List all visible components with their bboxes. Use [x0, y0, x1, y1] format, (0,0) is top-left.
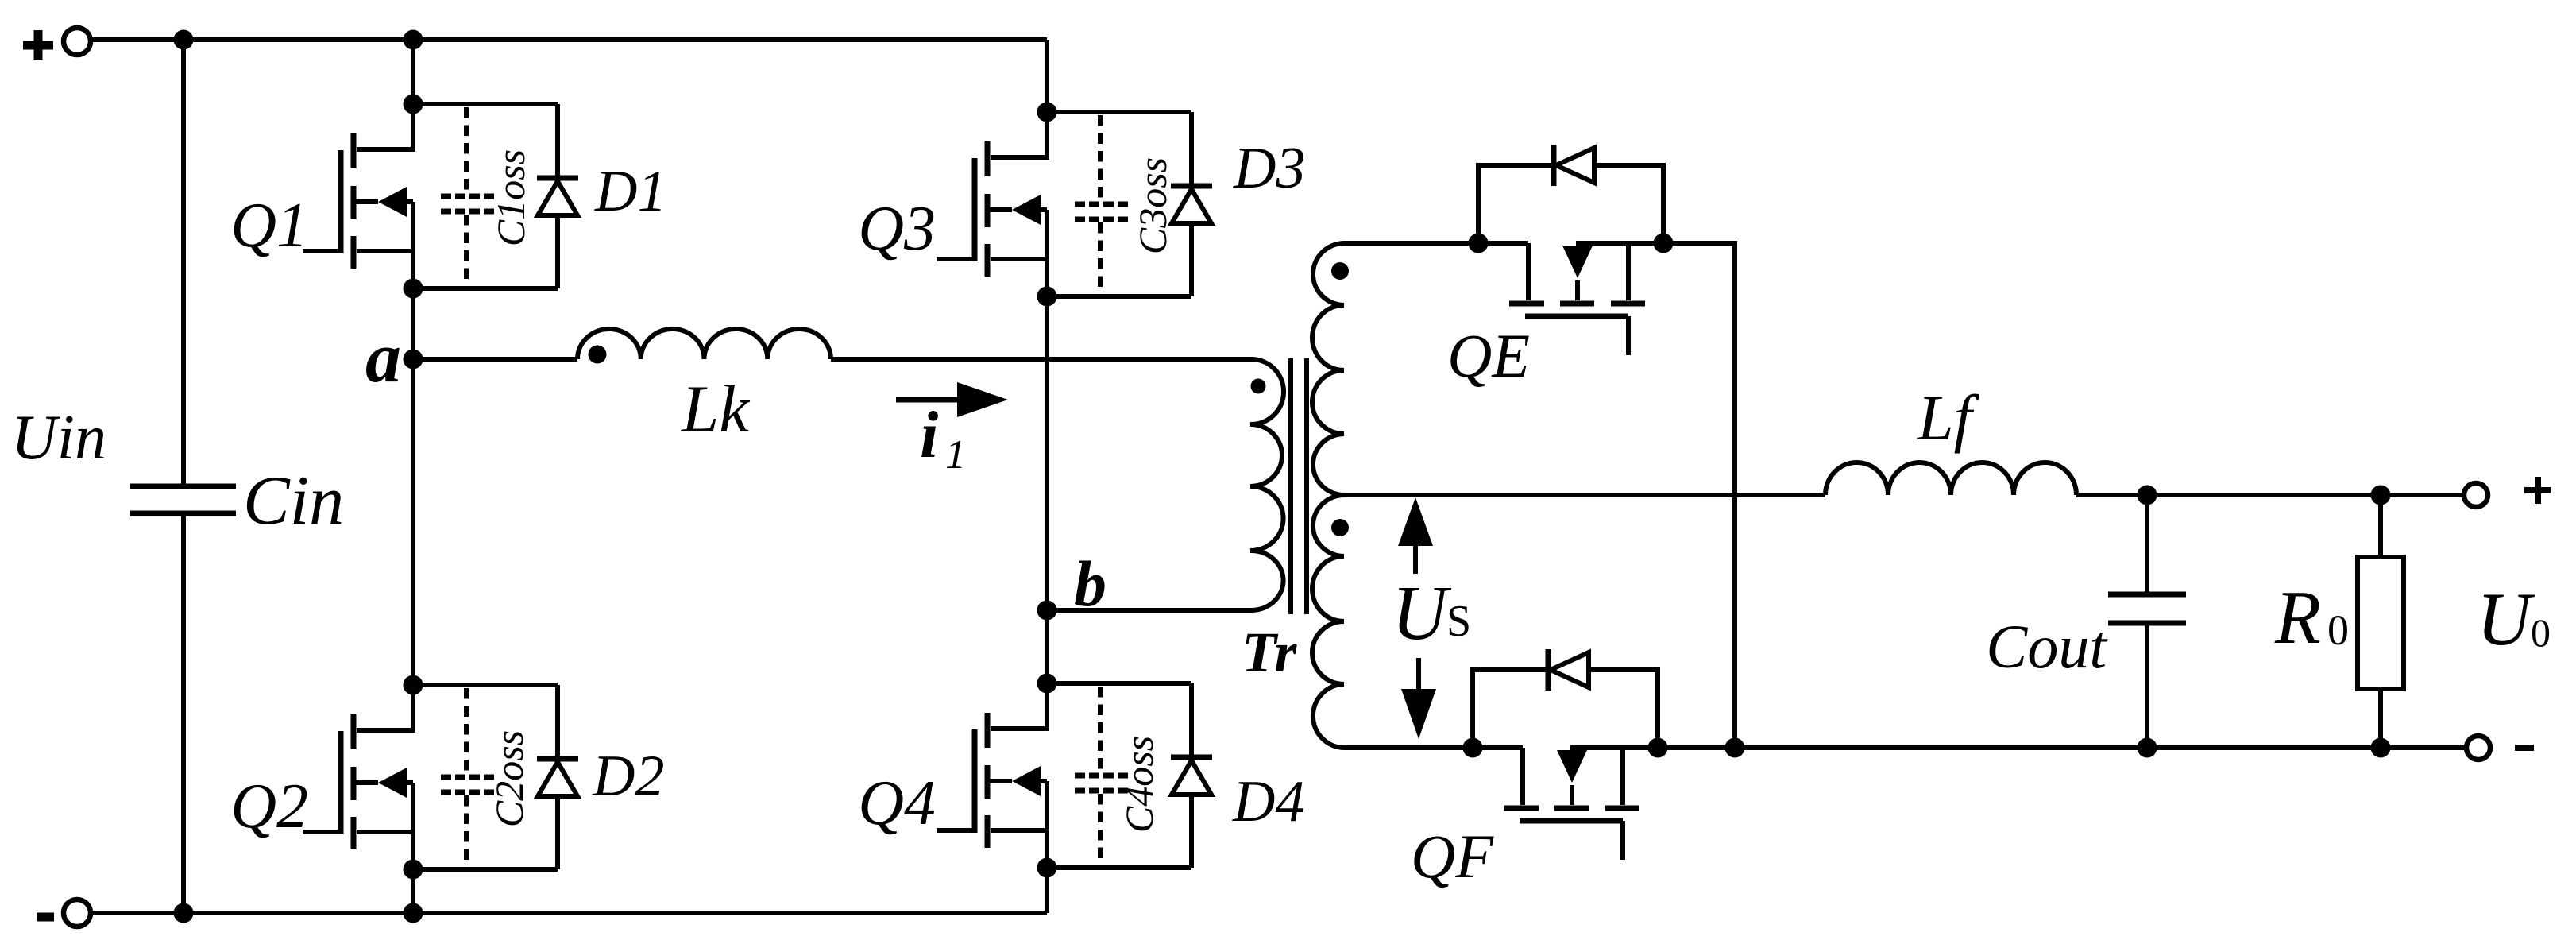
node bottom rail / left leg junction — [404, 903, 423, 923]
wire center tap to Lf — [1344, 493, 1825, 497]
node QF left junction — [1463, 738, 1483, 758]
svg-text:0: 0 — [2531, 610, 2551, 655]
svg-text:Cout: Cout — [1986, 612, 2108, 681]
terminal + output — [2464, 477, 2551, 507]
transistor Q2 — [303, 685, 413, 869]
node Q4 drain junction — [1037, 674, 1057, 694]
terminal - output — [2466, 736, 2534, 760]
wire right leg middle — [1045, 296, 1049, 683]
capacitor Cin — [130, 486, 236, 513]
transistor QE — [1509, 243, 1645, 355]
node Q3 source junction — [1037, 287, 1057, 307]
svg-text:QE: QE — [1447, 321, 1530, 390]
svg-text:Q2: Q2 — [230, 772, 308, 841]
label Us — [1392, 571, 1471, 656]
wire Lf to output plus — [2076, 493, 2464, 497]
node QE right junction — [1654, 234, 1674, 253]
svg-text:0: 0 — [2327, 606, 2349, 654]
node QF right junction — [1648, 738, 1668, 758]
svg-text:U: U — [2477, 577, 2535, 661]
node top rail / left leg junction — [404, 30, 423, 50]
diode D3 — [1171, 112, 1212, 296]
node Q2 source junction — [404, 860, 423, 880]
wire Lk to transformer primary — [831, 357, 1252, 362]
svg-text:Cin: Cin — [243, 462, 344, 540]
transistor Q4 — [937, 683, 1047, 868]
arrow i1 — [896, 382, 1008, 417]
wire left leg middle — [411, 288, 415, 685]
wire secondary bottom rail — [1344, 745, 2464, 750]
svg-text:Q3: Q3 — [858, 194, 936, 264]
svg-text:S: S — [1446, 597, 1471, 646]
wire right leg top — [1045, 40, 1049, 112]
node secondary bottom phase dot — [1331, 519, 1349, 536]
wire secondary top rail — [1344, 243, 1735, 748]
svg-text:C4oss: C4oss — [1117, 736, 1161, 833]
transformer Tr secondary top winding — [1312, 243, 1346, 495]
capacitor C1oss — [413, 104, 558, 288]
node Q4 source junction — [1037, 858, 1057, 878]
label i1 — [920, 398, 966, 478]
transformer Tr core — [1291, 358, 1307, 614]
label U0 — [2477, 577, 2551, 661]
svg-text:a: a — [365, 319, 401, 397]
terminal + input — [23, 28, 91, 60]
resistor R0 — [2358, 495, 2404, 748]
diode D2 — [537, 685, 578, 869]
arrow Us up — [1398, 497, 1433, 574]
terminal - input — [37, 900, 91, 927]
diode D1 — [537, 104, 578, 288]
svg-text:b: b — [1074, 547, 1106, 620]
node Cout bottom junction — [2138, 738, 2157, 758]
node bottom rail / Cin junction — [174, 903, 194, 923]
svg-text:Q4: Q4 — [858, 768, 936, 838]
node secondary rail junction — [1725, 738, 1745, 758]
capacitor Cout — [2108, 495, 2186, 748]
arrow Us down — [1401, 658, 1436, 739]
capacitor C4oss — [1047, 683, 1191, 868]
svg-text:i: i — [920, 398, 938, 472]
MOSFET bridge placeholder — [303, 95, 1305, 880]
svg-text:QF: QF — [1411, 822, 1494, 891]
transformer Tr secondary bottom winding — [1312, 495, 1346, 748]
svg-text:D2: D2 — [592, 744, 664, 809]
svg-text:1: 1 — [945, 432, 966, 478]
capacitor C2oss — [413, 685, 558, 869]
diode D4 — [1171, 683, 1212, 868]
diode QE antiparallel — [1478, 145, 1663, 243]
transistor QF — [1504, 748, 1639, 860]
node b — [1037, 601, 1057, 621]
wire Cin branch — [181, 40, 186, 913]
node a — [404, 350, 423, 369]
transistor Q3 — [937, 112, 1047, 296]
svg-text:Tr: Tr — [1242, 621, 1297, 684]
node Q1 drain junction — [404, 95, 423, 114]
svg-text:Q1: Q1 — [230, 191, 308, 261]
svg-text:D3: D3 — [1233, 136, 1305, 201]
wire top rail — [91, 37, 1047, 42]
node Q2 drain junction — [404, 675, 423, 695]
svg-text:D4: D4 — [1232, 769, 1304, 834]
svg-text:C2oss: C2oss — [487, 730, 531, 827]
label R0 — [2274, 575, 2349, 660]
svg-text:R: R — [2274, 575, 2321, 660]
inductor Lf — [1825, 462, 2076, 495]
transistor Q1 — [303, 104, 413, 288]
wire right leg bottom — [1045, 868, 1049, 913]
wire node a to Lk — [413, 357, 577, 362]
diode QF antiparallel — [1473, 649, 1658, 748]
svg-text:C3oss: C3oss — [1130, 157, 1175, 254]
node Q3 drain junction — [1037, 103, 1057, 122]
wire node b to transformer primary — [1047, 608, 1252, 613]
svg-text:C1oss: C1oss — [489, 149, 533, 246]
node Lk dot — [589, 346, 607, 364]
svg-text:Lf: Lf — [1917, 381, 1980, 454]
node R0 bottom junction — [2371, 738, 2391, 758]
capacitor C3oss — [1047, 112, 1191, 296]
svg-text:D1: D1 — [594, 159, 666, 224]
node Cout top junction — [2138, 486, 2157, 505]
svg-text:Uin: Uin — [11, 403, 106, 473]
inductor Lk — [577, 329, 831, 359]
node Q1 source junction — [404, 279, 423, 299]
transformer Tr primary winding — [1250, 359, 1284, 610]
wire left leg bottom — [411, 869, 415, 913]
svg-text:U: U — [1392, 571, 1452, 656]
wire bottom rail — [91, 911, 1047, 915]
svg-text:Lk: Lk — [681, 372, 750, 447]
node R0 top junction — [2371, 486, 2391, 505]
node top rail / Cin junction — [174, 30, 194, 50]
node QE left junction — [1469, 234, 1489, 253]
node primary phase dot — [1251, 379, 1266, 394]
node secondary top phase dot — [1331, 262, 1349, 280]
wire left leg top — [411, 40, 415, 104]
